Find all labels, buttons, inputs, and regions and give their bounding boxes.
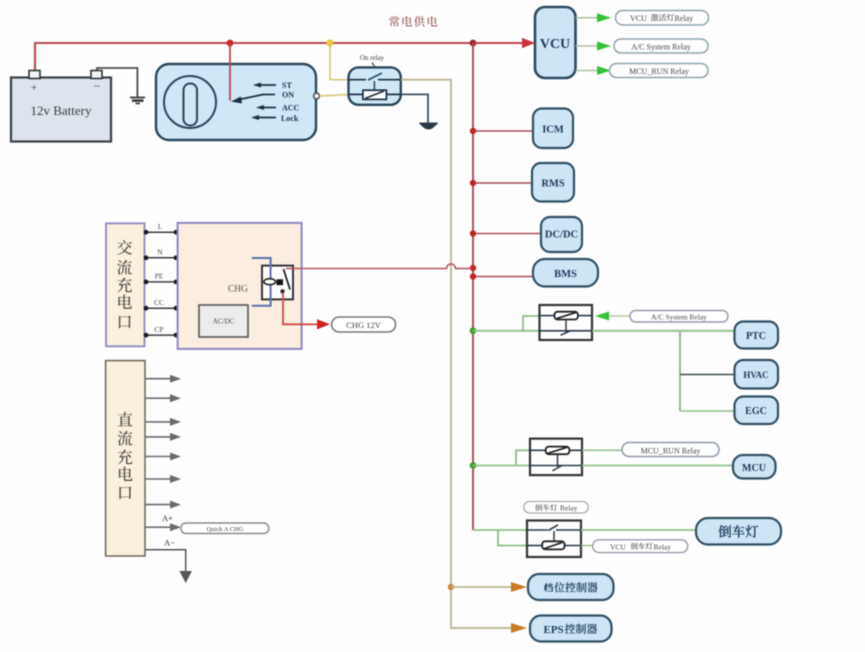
relay K1 On relay [349, 54, 401, 105]
wire VCU output 2 [576, 45, 598, 47]
wire MCU relay to MCU [582, 465, 733, 467]
wire CP [144, 325, 179, 338]
svg-text:A/C System Relay: A/C System Relay [651, 313, 707, 322]
wire DC pin 6 [145, 475, 181, 483]
node ICM tap [470, 128, 476, 134]
svg-text:Relay: Relay [654, 542, 672, 551]
node gear controller tap [448, 584, 454, 590]
wire CC [144, 298, 179, 311]
net label VCU 倒车灯Relay [593, 540, 688, 553]
connector AC charge port [106, 223, 145, 346]
node ignition output [314, 93, 320, 99]
wire VCU output 3 [576, 70, 598, 72]
relay CHG internal [262, 266, 293, 300]
svg-text:RMS: RMS [541, 179, 564, 190]
svg-text:VCU: VCU [630, 14, 647, 23]
contact ON [262, 94, 275, 96]
wire VCU output 1 [576, 17, 598, 19]
net label VCU 激活灯Relay [616, 11, 709, 26]
net label A/C System Relay [630, 311, 728, 323]
relay K4 reverse light [527, 521, 581, 558]
svg-text:A+: A+ [162, 513, 173, 523]
svg-text:CP: CP [154, 325, 163, 334]
net label 倒车灯 Relay [524, 502, 589, 514]
svg-text:Relay: Relay [675, 14, 694, 23]
svg-text:CHG: CHG [228, 285, 248, 295]
node A/C relay tap [470, 327, 477, 334]
node battery feed junction [227, 40, 234, 47]
svg-text:VCU: VCU [540, 37, 570, 52]
svg-text:L: L [158, 222, 163, 231]
ground on-relay [420, 124, 438, 130]
switch arm [231, 95, 263, 104]
wire ignition feed [229, 43, 231, 101]
svg-text:PE: PE [155, 272, 164, 281]
relay K2 A/C [540, 305, 593, 340]
contact Lock [251, 115, 276, 120]
module HVAC [735, 360, 779, 389]
ground battery [130, 98, 145, 104]
net label CHG 12V [332, 317, 396, 332]
contact ST [253, 83, 276, 88]
svg-text:Lock: Lock [281, 114, 299, 123]
module CHG charger [178, 223, 302, 349]
svg-text:12v Battery: 12v Battery [30, 103, 92, 118]
svg-text:A−: A− [164, 538, 175, 548]
wire PE [144, 272, 179, 285]
svg-text:HVAC: HVAC [743, 370, 768, 380]
svg-text:CC: CC [154, 298, 164, 307]
node DC/DC tap [470, 230, 476, 236]
wire DC pin 5 [145, 453, 181, 461]
wire N [144, 248, 179, 261]
relay K3 MCU RUN [530, 439, 582, 476]
connector DC charge port [106, 361, 145, 556]
svg-text:MCU_RUN Relay: MCU_RUN Relay [629, 67, 689, 76]
wire A/C relay to PTC [592, 330, 735, 332]
wire bus tap to relay switch [330, 43, 349, 80]
wire to gear controller [451, 582, 527, 592]
wire ACC bus olive vertical [401, 80, 511, 628]
svg-text:MCU: MCU [742, 463, 766, 474]
node yellow tap [326, 39, 333, 46]
wire to RMS [473, 182, 532, 184]
node MCU relay tap [470, 462, 477, 469]
wire A/C relay coil branch [523, 316, 540, 331]
ignition switch S1 [156, 64, 316, 140]
wire main vertical supply [472, 43, 474, 530]
svg-text:VCU: VCU [610, 542, 626, 551]
node main bus junction [470, 40, 477, 47]
wire to ICM [473, 130, 533, 132]
svg-text:MCU_RUN Relay: MCU_RUN Relay [641, 447, 701, 456]
module MCU [733, 455, 776, 479]
wire arrow into A/C relay coil [595, 312, 630, 321]
module DC/DC [541, 217, 582, 252]
wire battery negative to ground [97, 68, 137, 97]
svg-text:PTC: PTC [746, 331, 766, 342]
module ICM [533, 109, 573, 149]
wire relay coil to ground [401, 94, 428, 122]
wire MCU relay coil branch [516, 450, 530, 465]
module EPS控制器 [530, 616, 612, 642]
svg-text:EPS: EPS [544, 624, 564, 636]
net label MCU_RUN Relay [622, 443, 719, 457]
module EGC [735, 397, 779, 425]
module 档位控制器 [528, 574, 614, 600]
svg-text:DC/DC: DC/DC [545, 230, 578, 241]
wire DC pin 1 [145, 375, 181, 383]
contact ACC [256, 105, 276, 110]
svg-text:Quick A CHG: Quick A CHG [207, 526, 244, 533]
wire to reverse relay [473, 529, 527, 531]
node RMS tap [470, 180, 476, 186]
module VCU [535, 7, 576, 78]
svg-text:On relay: On relay [360, 54, 385, 62]
net label A/C System Relay top [614, 39, 708, 53]
label 常电供电 [389, 16, 437, 27]
wire to MCU relay switch [473, 465, 530, 467]
wire DC pin A+ [145, 513, 181, 531]
svg-text:ON: ON [282, 91, 294, 100]
wire DC pin 2 [145, 394, 181, 402]
wire to EPS controller [511, 623, 527, 633]
svg-text:ICM: ICM [542, 125, 564, 136]
svg-text:−: − [94, 79, 101, 93]
battery B1 [11, 71, 111, 142]
svg-text:CHG 12V: CHG 12V [346, 320, 382, 330]
wire DC pin 4 [145, 433, 181, 441]
wire DC pin 7 [145, 501, 181, 509]
wire reverse relay coil to label [581, 545, 593, 547]
svg-text:N: N [157, 248, 163, 257]
svg-text:EGC: EGC [745, 406, 767, 417]
module RMS [532, 163, 574, 202]
wire reverse relay coil branch [498, 530, 527, 546]
wire to BMS [473, 276, 533, 278]
wire CHG 12V output [283, 294, 330, 330]
svg-text:AC/DC: AC/DC [213, 318, 235, 326]
svg-text:ST: ST [282, 81, 292, 90]
net label Quick A CHG [181, 523, 269, 534]
ground DC port arrow [180, 571, 192, 583]
wire reverse relay to lamp [581, 529, 696, 531]
wire to A/C relay switch [473, 330, 540, 332]
svg-text:BMS: BMS [554, 269, 577, 280]
module PTC [735, 322, 779, 349]
node CHG feed junction [470, 265, 476, 271]
wire MCU relay coil to label [582, 449, 622, 451]
wire switch to relay coil [320, 95, 349, 97]
wire L [144, 222, 179, 235]
wire branch to HVAC EGC [680, 331, 735, 411]
module 倒车灯 [696, 518, 781, 545]
node BMS tap [470, 273, 476, 279]
svg-text:+: + [31, 82, 37, 94]
svg-text:Relay: Relay [560, 504, 578, 513]
net label MCU_RUN Relay top [610, 64, 709, 78]
wire to DC/DC [473, 233, 541, 235]
wire bus to VCU [473, 42, 523, 44]
module AC/DC converter [199, 305, 248, 337]
module BMS [533, 259, 598, 287]
wire DC pin 3 [145, 418, 181, 426]
wire CHG to main bus [286, 264, 473, 269]
wire main supply bus [230, 42, 473, 44]
relay CHG coil and contact [264, 269, 290, 293]
wire battery positive to bus [35, 43, 230, 70]
charge gun bracket [252, 258, 271, 306]
svg-text:ACC: ACC [282, 104, 300, 113]
wire DC pin A- [145, 538, 186, 572]
svg-text:A/C System Relay: A/C System Relay [631, 43, 691, 52]
